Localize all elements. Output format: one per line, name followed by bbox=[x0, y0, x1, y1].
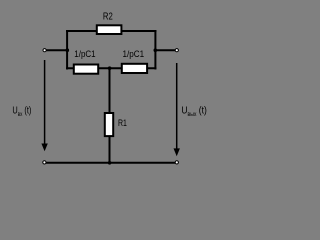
wire node B to output terminal bbox=[154, 49, 175, 51]
wire R1 column from middle junction to bottom rail bbox=[109, 67, 111, 163]
node junction dot B bbox=[154, 48, 158, 52]
svg-text:R2: R2 bbox=[103, 12, 113, 23]
wire bottom rail bbox=[46, 162, 175, 164]
input terminal circle bottom-left bbox=[43, 161, 46, 164]
wire right node column bbox=[154, 30, 156, 70]
svg-text:R1: R1 bbox=[118, 118, 127, 129]
input voltage arrow (down) bbox=[41, 60, 47, 151]
capacitor impedance 1/pC1 (right) bbox=[122, 64, 147, 73]
node junction dot R1 bottom on rail bbox=[108, 161, 112, 165]
resistor R1 bbox=[105, 113, 113, 136]
svg-text:1/pC1: 1/pC1 bbox=[74, 49, 95, 60]
output voltage arrow (down) bbox=[174, 63, 180, 156]
output terminal circle bottom-right bbox=[175, 161, 178, 164]
capacitor impedance 1/pC1 (left) bbox=[74, 65, 98, 74]
svg-text:1/pC1: 1/pC1 bbox=[123, 49, 145, 60]
wire input terminal to node A bbox=[46, 49, 68, 51]
wire middle branch bbox=[66, 67, 156, 69]
wire left node column bbox=[66, 30, 68, 70]
resistor R2 bbox=[97, 25, 122, 34]
input terminal circle top-left bbox=[43, 49, 46, 52]
wire top branch bbox=[66, 30, 156, 32]
output terminal circle top-right bbox=[175, 49, 178, 52]
node junction dot A bbox=[66, 48, 70, 52]
node junction dot between capacitors (R1 top) bbox=[108, 66, 112, 70]
